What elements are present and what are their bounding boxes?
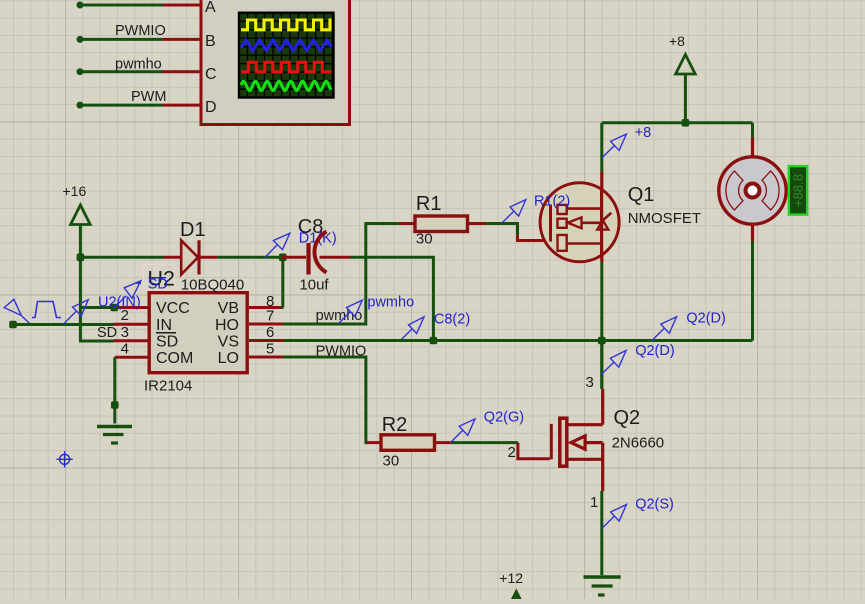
svg-text:pwmho: pwmho bbox=[115, 57, 162, 73]
wire R2 to Q2 gate bbox=[450, 441, 518, 444]
power +8 arrow bbox=[676, 55, 696, 123]
origin marker bbox=[56, 451, 72, 467]
probe R1(2) arrow bbox=[502, 200, 526, 224]
svg-text:PWM: PWM bbox=[131, 89, 166, 105]
Q1 value label NMOSFET bbox=[628, 210, 701, 227]
U2 pin number 4 bbox=[121, 341, 129, 358]
wire IN input bbox=[13, 323, 114, 326]
transistor Q1 NMOSFET bbox=[540, 183, 619, 262]
node generator terminal bbox=[9, 321, 17, 329]
U2 pin 4 COM bbox=[115, 356, 148, 359]
resistor R2 reference label bbox=[382, 414, 408, 436]
U2 pin name VCC bbox=[156, 300, 190, 317]
node scope C bbox=[77, 68, 84, 75]
probe label D1(K) bbox=[299, 231, 337, 247]
U2 pin name LO bbox=[218, 350, 239, 367]
svg-text:2: 2 bbox=[508, 444, 516, 461]
probe U2(IN) arrow bbox=[63, 300, 88, 325]
capacitor C8 left pin bbox=[282, 256, 306, 259]
U2 pin 3 SD bbox=[113, 339, 147, 342]
transistor Q2 2N6660 bbox=[551, 389, 602, 491]
probe label U2(IN) bbox=[98, 295, 141, 311]
U2 pin 6 VS bbox=[249, 339, 284, 342]
probe label Q2(D) lower bbox=[635, 343, 674, 359]
op-amp U2 IR2104 body bbox=[149, 293, 247, 373]
svg-text:D: D bbox=[205, 99, 217, 116]
U2 pin name VB bbox=[218, 300, 239, 317]
resistor R1 right pin bbox=[468, 222, 486, 225]
R1 value label 30 bbox=[416, 231, 433, 248]
U2 pin 5 LO bbox=[249, 356, 284, 359]
wire scope B bbox=[80, 38, 163, 41]
svg-text:2N6660: 2N6660 bbox=[612, 435, 665, 452]
svg-text:VS: VS bbox=[218, 334, 239, 351]
svg-text:R1: R1 bbox=[416, 193, 442, 215]
svg-text:Q1: Q1 bbox=[628, 184, 655, 206]
svg-text:5: 5 bbox=[266, 341, 274, 358]
transistor Q1 source pin bbox=[600, 255, 603, 262]
resistor R1 left pin bbox=[399, 222, 415, 225]
wire scope D bbox=[80, 104, 163, 107]
probe label Q2(D) upper bbox=[686, 311, 725, 327]
capacitor C8 10uf bbox=[309, 232, 327, 275]
Q2 value label 2N6660 bbox=[612, 435, 665, 452]
wire +8 rail bbox=[602, 121, 753, 124]
wire Q2 drain bbox=[600, 341, 603, 390]
probe SD (on VCC node) bbox=[114, 281, 141, 308]
svg-text:+8: +8 bbox=[669, 33, 685, 49]
wire motor to VS bbox=[751, 241, 754, 341]
Q2 pin number 1 bbox=[590, 494, 598, 511]
svg-text:VCC: VCC bbox=[156, 300, 190, 317]
probe +8 arrow bbox=[602, 134, 627, 158]
svg-text:7: 7 bbox=[266, 308, 274, 325]
motor top pin bbox=[751, 138, 754, 159]
power +12 arrow bbox=[507, 592, 527, 604]
motor bottom pin bbox=[751, 224, 754, 241]
node +8 junction bbox=[682, 119, 690, 127]
svg-text:IN: IN bbox=[156, 317, 172, 334]
wire Q1 source to VS bbox=[600, 262, 603, 389]
probe label C8(2) bbox=[434, 312, 470, 328]
probe label Q2(G) bbox=[484, 410, 524, 426]
node VCC probe junction bbox=[111, 304, 119, 312]
oscilloscope screen bbox=[239, 13, 334, 98]
probe Q2(G) arrow bbox=[450, 419, 475, 443]
net label pwmho (HO wire) bbox=[316, 308, 363, 324]
wire HO to R1 bbox=[284, 224, 399, 325]
svg-text:Q2: Q2 bbox=[614, 407, 641, 429]
svg-text:1: 1 bbox=[590, 494, 598, 511]
resistor R1 reference label bbox=[416, 193, 442, 215]
wire Q1 drain to +8 rail bbox=[600, 123, 603, 172]
svg-text:pwmho: pwmho bbox=[367, 295, 414, 311]
svg-text:D1: D1 bbox=[180, 219, 206, 241]
node scope A bbox=[77, 2, 84, 9]
net label PWMIO (LO wire) bbox=[316, 344, 367, 360]
node junction +16 / D1 anode bbox=[77, 254, 85, 262]
ground (U2 COM) wire bbox=[113, 357, 116, 423]
probe D1(K) arrow bbox=[265, 233, 290, 257]
wire R1 to Q1 gate bbox=[486, 224, 518, 240]
svg-text:SD: SD bbox=[148, 277, 168, 293]
trace C red square wave bbox=[241, 62, 332, 72]
wire motor to +8 rail bbox=[751, 123, 754, 138]
svg-text:IR2104: IR2104 bbox=[144, 378, 192, 395]
diode D1 10BQ040 bbox=[181, 240, 199, 274]
node COM ground bbox=[111, 401, 119, 409]
probe label +8 bbox=[635, 125, 652, 141]
svg-text:LO: LO bbox=[218, 350, 239, 367]
svg-text:R1(2): R1(2) bbox=[534, 194, 570, 210]
svg-text:3: 3 bbox=[586, 374, 594, 391]
ground symbol (Q2 source) bbox=[584, 577, 621, 595]
diode D1 anode pin bbox=[164, 256, 182, 259]
U2 pin 2 IN bbox=[113, 323, 147, 326]
U2 pin 7 HO bbox=[249, 323, 284, 326]
U2 pin number 7 bbox=[266, 308, 274, 325]
node C8(2) junction bbox=[430, 337, 438, 345]
svg-text:6: 6 bbox=[266, 324, 274, 341]
diode D1 reference label bbox=[180, 219, 206, 241]
wire Q2 source to ground bbox=[600, 491, 603, 575]
svg-text:+8: +8 bbox=[635, 125, 652, 141]
U2 pin number 3 bbox=[121, 324, 129, 341]
svg-text:30: 30 bbox=[416, 231, 433, 248]
Q2 reference label bbox=[614, 407, 641, 429]
motor rpm display bbox=[789, 166, 807, 215]
node Q2 drain junction bbox=[598, 337, 606, 345]
wire scope A bbox=[80, 4, 163, 7]
svg-text:B: B bbox=[205, 33, 216, 50]
C8 value label 10uf bbox=[299, 277, 329, 294]
U2 pin number 6 bbox=[266, 324, 274, 341]
capacitor C8 right pin bbox=[320, 256, 351, 259]
wire C8 to VS bbox=[350, 257, 433, 340]
oscilloscope pin B bbox=[163, 38, 202, 41]
wire VCC feed bbox=[80, 306, 116, 309]
wire LO to R2 bbox=[284, 357, 369, 443]
svg-text:Q2(S): Q2(S) bbox=[635, 497, 674, 513]
svg-text:Q2(G): Q2(G) bbox=[484, 410, 524, 426]
transistor Q1 drain pin bbox=[600, 172, 603, 190]
resistor R1 body bbox=[415, 216, 468, 232]
oscilloscope pin D bbox=[163, 104, 202, 107]
diode D1 cathode pin bbox=[199, 256, 217, 259]
svg-text:SD: SD bbox=[156, 334, 178, 351]
svg-text:R2: R2 bbox=[382, 414, 408, 436]
U2 pin number 2 bbox=[121, 307, 129, 324]
wire +16 vertical rail bbox=[79, 257, 82, 341]
trace D green sine wave bbox=[241, 81, 331, 90]
pin label D bbox=[205, 99, 217, 116]
probe label pwmho bbox=[367, 295, 414, 311]
transistor Q1 gate pin bbox=[518, 235, 550, 241]
svg-text:C: C bbox=[205, 66, 217, 83]
net label SD (blue, overline) bbox=[136, 277, 168, 293]
wire D1 anode from +16 rail bbox=[80, 256, 163, 259]
svg-text:Q2(D): Q2(D) bbox=[686, 311, 725, 327]
U2 value label IR2104 bbox=[144, 378, 192, 395]
U2 pin name COM bbox=[156, 350, 193, 367]
pin label A bbox=[205, 0, 216, 16]
svg-text:U2(IN): U2(IN) bbox=[98, 295, 141, 311]
trace B blue triangle wave bbox=[241, 40, 332, 50]
Q2 pin number 2 bbox=[508, 444, 516, 461]
wire VB drop bbox=[281, 257, 285, 307]
svg-text:VB: VB bbox=[218, 300, 239, 317]
oscilloscope body bbox=[201, 0, 350, 125]
power +8 label bbox=[669, 33, 685, 49]
net label PWM (scope D) bbox=[131, 89, 166, 105]
resistor R2 left pin bbox=[366, 441, 381, 444]
oscilloscope pin A bbox=[163, 4, 202, 7]
wire D1 cathode to C8 bbox=[217, 256, 283, 259]
pulse generator icon bbox=[4, 299, 61, 324]
wire SD to pin 3 bbox=[79, 340, 114, 343]
Q1 reference label bbox=[628, 184, 655, 206]
wire label SD bbox=[97, 325, 117, 341]
resistor R2 right pin bbox=[435, 441, 451, 444]
wire VS rail bbox=[284, 339, 753, 342]
ground symbol (U2 COM) bbox=[97, 427, 132, 444]
node scope D bbox=[77, 102, 84, 109]
power +16 label bbox=[63, 183, 87, 199]
power +12 label bbox=[499, 570, 523, 586]
svg-text:Q2(D): Q2(D) bbox=[635, 343, 674, 359]
U2 pin name IN bbox=[156, 317, 172, 334]
probe label Q2(S) bbox=[635, 497, 674, 513]
transistor Q2 gate pin bbox=[518, 443, 550, 459]
wire scope C bbox=[80, 70, 163, 73]
U2 reference label bbox=[148, 267, 175, 291]
net label pwmho (scope C) bbox=[115, 57, 162, 73]
svg-text:A: A bbox=[205, 0, 216, 16]
probe pwmho arrow bbox=[338, 300, 362, 324]
oscilloscope pin C bbox=[163, 70, 202, 73]
node scope B bbox=[77, 36, 84, 43]
svg-text:3: 3 bbox=[121, 324, 129, 341]
svg-text:COM: COM bbox=[156, 350, 193, 367]
probe C8(2) arrow bbox=[399, 317, 424, 342]
motor bbox=[719, 157, 786, 224]
svg-text:C8(2): C8(2) bbox=[434, 312, 470, 328]
svg-text:PWMIO: PWMIO bbox=[115, 23, 166, 39]
R2 value label 30 bbox=[383, 453, 400, 470]
capacitor C8 reference label bbox=[298, 216, 324, 238]
svg-text:10BQ040: 10BQ040 bbox=[181, 277, 244, 294]
power +16 arrow bbox=[71, 205, 91, 257]
U2 pin number 5 bbox=[266, 341, 274, 358]
probe label R1(2) bbox=[534, 194, 570, 210]
svg-text:4: 4 bbox=[121, 341, 129, 358]
D1 value label 10BQ040 bbox=[181, 277, 244, 294]
svg-text:30: 30 bbox=[383, 453, 400, 470]
svg-text:+16: +16 bbox=[63, 183, 87, 199]
U2 pin name HO bbox=[215, 317, 239, 334]
trace A yellow square wave bbox=[241, 20, 332, 30]
U2 pin name SD with overline bbox=[156, 333, 178, 351]
U2 pin 1 VCC bbox=[118, 306, 148, 309]
U2 pin name VS bbox=[218, 334, 239, 351]
U2 pin 8 VB bbox=[249, 306, 284, 309]
probe Q2(D) arrow (on VS rail) bbox=[652, 317, 677, 341]
svg-text:HO: HO bbox=[215, 317, 239, 334]
pin label B bbox=[205, 33, 216, 50]
svg-text:NMOSFET: NMOSFET bbox=[628, 210, 701, 227]
net label PWMIO (scope B) bbox=[115, 23, 166, 39]
svg-text:+12: +12 bbox=[499, 570, 523, 586]
svg-text:+88.8: +88.8 bbox=[791, 174, 806, 207]
probe Q2(D) arrow (on drain wire) bbox=[601, 350, 626, 374]
U2 reference label highlight box bbox=[144, 264, 175, 289]
Q2 pin number 3 bbox=[586, 374, 594, 391]
node VB junction bbox=[279, 254, 287, 262]
svg-text:SD: SD bbox=[97, 325, 117, 341]
svg-text:10uf: 10uf bbox=[299, 277, 329, 294]
U2 pin number 8 bbox=[266, 293, 274, 310]
resistor R2 body bbox=[381, 435, 435, 451]
pin label C bbox=[205, 66, 217, 83]
probe Q2(S) arrow bbox=[602, 505, 627, 529]
